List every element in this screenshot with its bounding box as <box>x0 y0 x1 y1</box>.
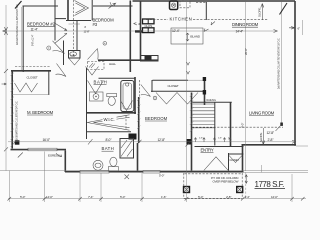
wall: living room bottom <box>242 144 297 146</box>
wall: closet bank lower header <box>66 20 91 22</box>
svg-text:BATH: BATH <box>102 146 114 151</box>
wall: top closet bank mid partition <box>67 0 69 20</box>
svg-text:2x6 RAFTERS AND COLLAR TIE VEN: 2x6 RAFTERS AND COLLAR TIE VENTS AT 16" … <box>278 38 281 89</box>
door: bedroom #2 closet double doors <box>55 23 68 31</box>
stairs treads <box>193 104 215 128</box>
svg-text:2'-8": 2'-8" <box>268 138 275 142</box>
wall: entry top wall <box>195 146 244 148</box>
svg-text:ENTRY: ENTRY <box>201 147 214 152</box>
symbol: ceiling fixture bedroom3 <box>103 42 107 46</box>
tick: lower dim mid <box>138 140 142 144</box>
symbol: ceiling fixture bedroom <box>153 96 157 100</box>
arrow: near island right <box>204 29 209 32</box>
svg-text:2'-8": 2'-8" <box>226 195 231 199</box>
wall: kitchen left wall <box>140 1 142 62</box>
fixture: hall bath vanity sink <box>90 92 104 101</box>
svg-text:M. BEDROOM: M. BEDROOM <box>27 110 54 115</box>
wall: wic right wall band <box>138 97 140 143</box>
tick slash: top left eave <box>15 1 22 9</box>
reference line: dining interior with end blob <box>281 2 283 125</box>
wall poche: laundry closet bottom <box>135 30 143 32</box>
svg-text:9'-0": 9'-0" <box>241 123 245 128</box>
wall poche: master bedroom sw corner <box>15 140 20 144</box>
arrow: 6 inch overhang right <box>289 27 295 30</box>
door: entry closet door <box>229 156 242 163</box>
dim arrows: porch depth <box>245 175 247 184</box>
fixture: master bath toilet <box>109 167 119 172</box>
hatch: wic right wall <box>137 98 140 129</box>
svg-text:1778 S.F.: 1778 S.F. <box>255 180 285 189</box>
fixture: master shower with glass <box>120 139 134 159</box>
wall: entry closet top <box>229 153 244 155</box>
arrow: upper dim left end <box>3 30 7 33</box>
wall: bedroom #2 right wall <box>54 0 56 41</box>
wall: kitchen counter bottom with sink <box>141 56 159 62</box>
wall: stairs top <box>193 101 232 103</box>
wall poche: dining wall top end <box>203 77 206 81</box>
wall: hall bath bottom / wic top <box>87 112 137 114</box>
svg-text:5'-0": 5'-0" <box>20 195 25 199</box>
wall poche: wic wall bottom end <box>129 134 137 140</box>
wall: linen closet box <box>69 51 81 59</box>
dashed line: master closet header <box>15 66 51 68</box>
svg-text:LIVING ROOM: LIVING ROOM <box>249 111 275 116</box>
fixture: hall bath toilet <box>107 94 117 97</box>
door: bedroom closet bifold chevrons <box>156 93 198 105</box>
window: master bath bottom window <box>80 170 109 173</box>
arrow: lower dim right end <box>292 140 296 143</box>
svg-text:BEDROOM: BEDROOM <box>145 116 168 121</box>
svg-text:R-30 BATTS AND CLG JSTS AT 24": R-30 BATTS AND CLG JSTS AT 24" O.C. <box>16 101 19 140</box>
closet rod zigzag: master bedroom closet <box>15 83 38 92</box>
tick: bath window <box>125 175 130 180</box>
wall: top wall kitchen and dining <box>133 0 296 2</box>
door: entry front double door leaves <box>204 157 229 171</box>
dashed: bath plumbing wall line <box>138 80 140 112</box>
svg-text:2'-8": 2'-8" <box>199 138 203 140</box>
tick: lower dim at bath left <box>88 139 93 145</box>
svg-text:12'-0": 12'-0" <box>271 195 278 199</box>
svg-text:2'-8": 2'-8" <box>218 138 222 140</box>
wall poche: stair wall end at dimension line <box>187 139 192 145</box>
arrow flag: bedroom3 top wall callout <box>109 2 116 8</box>
svg-text:SLOPE: SLOPE <box>258 8 262 17</box>
svg-text:EGRESS: EGRESS <box>48 154 60 158</box>
svg-text:KITCHEN: KITCHEN <box>170 17 192 22</box>
door: bedroom #3 door leaf <box>88 49 99 60</box>
wall: closet bank shelf line <box>55 18 66 20</box>
dimension line: bottom string <box>8 198 306 200</box>
svg-text:12'-8": 12'-8" <box>158 138 166 142</box>
wall: stairwell right wall <box>230 102 232 146</box>
svg-text:12'-4": 12'-4" <box>172 29 180 33</box>
wall: exterior right (dining living) <box>294 1 296 146</box>
door: top closet bifold chevrons <box>75 1 89 16</box>
line: porch floor right extension <box>244 171 309 173</box>
door: linen closet door leaf <box>69 59 80 66</box>
wall: master closet right side <box>48 71 50 95</box>
svg-text:6": 6" <box>298 27 301 31</box>
arrow: left wall callout <box>2 83 7 85</box>
wall: exterior left lower (master bedroom) <box>11 71 13 149</box>
wall: bedroom closet left <box>151 80 153 92</box>
fixture: washer dryer lower box <box>143 28 155 33</box>
slope arrow: dining room <box>261 4 264 21</box>
wall: master bedroom bottom <box>11 149 67 151</box>
fixture: master bath sink <box>93 160 103 170</box>
dashed line: living room ceiling break <box>192 126 283 128</box>
door: master bedroom door leaf <box>56 64 67 77</box>
svg-text:7'-4": 7'-4" <box>88 195 93 199</box>
wall: master bedroom top <box>11 70 51 72</box>
dashed vertical: closet centerline <box>73 0 75 57</box>
tick: lower dim at bedroom wall <box>186 143 190 147</box>
wall: wic bottom / master bath top <box>87 131 132 133</box>
fixture: kitchen range <box>170 1 178 10</box>
fixture: hall bath tub <box>121 81 134 112</box>
wall: hall left wall <box>63 41 65 66</box>
tick slash: top right eave <box>280 3 288 15</box>
svg-text:BEDROOM #2: BEDROOM #2 <box>27 21 56 26</box>
svg-text:20'-0": 20'-0" <box>244 48 248 55</box>
svg-text:11'-8": 11'-8" <box>84 29 90 33</box>
wall: closet column right side <box>76 21 78 51</box>
dimension line: main horizontal upper <box>3 30 278 32</box>
door: wic double doors <box>121 101 133 111</box>
slope arrow: living room <box>262 128 265 145</box>
wall: entry closet left wall <box>228 153 230 171</box>
arrow: kitchen dashed end <box>211 22 215 26</box>
wall: hall bath left wall <box>86 68 88 139</box>
door: bedroom #2 entry door leaf <box>53 41 65 54</box>
fixture: kitchen island <box>171 28 203 44</box>
svg-text:CLOSET: CLOSET <box>27 76 38 80</box>
wall: master bath right wall <box>137 143 139 171</box>
dashed line: kitchen top short <box>196 2 207 4</box>
window: bedroom bottom window <box>143 170 160 173</box>
wall: kitchen pantry side wall <box>205 2 207 20</box>
line: living bottom extension to edge <box>296 145 308 147</box>
wall: bedroom closet bottom header <box>151 90 206 92</box>
fixture: washer dryer upper box <box>143 19 155 24</box>
grade line: porch front edge full width <box>0 170 308 172</box>
svg-text:5'-0": 5'-0" <box>198 195 203 199</box>
svg-text:11'-4": 11'-4" <box>31 28 39 32</box>
wall: hall top / bedroom #3 bottom <box>98 59 158 61</box>
wall: dining left wall piece <box>204 77 206 105</box>
leader: egress window note <box>56 153 62 157</box>
svg-text:1'-6": 1'-6" <box>161 195 166 199</box>
wall: bedroom closet top <box>153 79 189 81</box>
svg-text:W.I.C.: W.I.C. <box>104 117 115 122</box>
tick: left dim at mbed bottom <box>4 147 8 151</box>
wall: top wall bedroom #2 <box>23 5 59 7</box>
wall poche: dining wall lower end <box>203 90 206 95</box>
svg-text:OVER PIER BELOW: OVER PIER BELOW <box>213 180 239 184</box>
svg-text:DINING ROOM: DINING ROOM <box>232 22 259 27</box>
arrow: upper dim right end <box>274 30 278 33</box>
closet line: master closet bottom <box>11 94 48 96</box>
wall: hall bath top <box>99 77 136 79</box>
porch: post left <box>184 187 190 193</box>
door: bedroom #3 closet chevrons <box>86 67 99 76</box>
tick marks: bottom string <box>8 197 305 201</box>
svg-text:CLOSET: CLOSET <box>230 159 240 162</box>
wall: top closet bank right partition <box>91 0 93 21</box>
svg-text:RAILING: RAILING <box>207 99 216 102</box>
dimension line: main horizontal lower <box>8 141 296 143</box>
door: hall bath double leaves <box>88 81 104 94</box>
dimension line: left vertical <box>5 5 7 171</box>
svg-text:12'-8": 12'-8" <box>267 131 275 135</box>
dashed: wic closet rod reference <box>125 116 127 131</box>
svg-text:CLOS: CLOS <box>145 24 153 28</box>
hatch: stairs left wall <box>190 94 193 132</box>
tick: lower dim at left wall <box>14 140 18 144</box>
symbol: ceiling fixture bedroom2 <box>47 46 51 50</box>
svg-text:ISLAND: ISLAND <box>190 35 201 39</box>
wall: exterior left upper (bedroom #2) <box>22 6 24 73</box>
door: bedroom door leaf <box>141 85 151 97</box>
svg-text:1'-4": 1'-4" <box>245 195 250 199</box>
svg-text:14'-0": 14'-0" <box>46 195 53 199</box>
wall: stair railing line <box>214 102 216 145</box>
svg-text:HALL: HALL <box>109 62 116 66</box>
porch: post right <box>237 187 243 193</box>
svg-text:2x6 RAFTERS AND CLG JSTS AT 24: 2x6 RAFTERS AND CLG JSTS AT 24" O.C. <box>16 3 19 45</box>
hatch: left lower wall <box>11 73 14 147</box>
svg-text:5'-0": 5'-0" <box>159 174 164 178</box>
label: W.I.C. <box>103 117 117 122</box>
porch: dashed outline <box>184 173 242 198</box>
island interior arrows <box>186 33 189 41</box>
extension lines: bottom dimension string <box>9 0 302 202</box>
svg-text:14'-4": 14'-4" <box>236 30 244 34</box>
wall: step wall master bath left <box>64 151 66 173</box>
window: master bedroom bottom egress window <box>28 148 57 151</box>
arrow: near bedroom3 door 4ft <box>134 23 138 25</box>
fixture: refrigerator dashed <box>180 1 190 8</box>
dashed line: kitchen upper cabinets <box>146 19 168 21</box>
dim arrows: vertical grid at kitchen closet <box>187 62 190 74</box>
sink: kitchen sink in counter <box>145 56 152 60</box>
wall: entry right wall <box>242 145 244 172</box>
wall: bedroom #3 right wall <box>129 1 131 73</box>
wall: bottom wall long (bath entry) <box>65 171 244 173</box>
wall: closet inner shelf <box>69 23 81 25</box>
svg-text:LIN: LIN <box>71 53 75 57</box>
fixture: oval in linen closet <box>70 52 77 56</box>
svg-text:CLOSET: CLOSET <box>168 84 179 88</box>
svg-text:5'-0": 5'-0" <box>120 195 125 199</box>
tick: window left wall <box>18 153 23 158</box>
entry dimension arrows under stairs <box>194 138 231 143</box>
wall: top wall bedroom #3 <box>93 5 133 7</box>
tick slash: living room dashed line <box>276 125 282 132</box>
svg-text:8'-0": 8'-0" <box>106 138 113 142</box>
arrow: left vertical at main dim <box>5 27 8 35</box>
attic access dashed box in hall <box>88 62 105 70</box>
svg-text:SLOPE: SLOPE <box>259 133 263 142</box>
wall: hall bath right wall <box>134 77 136 114</box>
bottom dimension texts <box>20 195 278 199</box>
wall: stairs left wall <box>191 93 193 172</box>
svg-text:16'-0": 16'-0" <box>43 138 51 142</box>
tick: left dim at mbed top <box>4 69 8 73</box>
svg-text:9'-8" x 11'-4": 9'-8" x 11'-4" <box>32 35 35 46</box>
closet bifold chevrons: wic large <box>87 115 130 130</box>
svg-text:BATH: BATH <box>94 80 107 85</box>
entry small dim texts <box>199 138 230 140</box>
